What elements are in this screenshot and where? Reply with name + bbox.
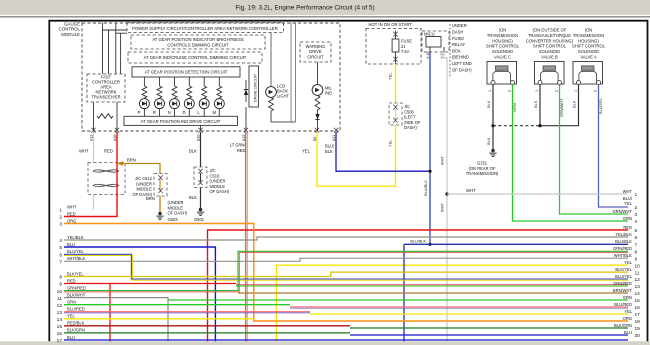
LED N with resistor — [174, 77, 176, 86]
LCD back light lamp — [270, 33, 272, 87]
svg-text:7: 7 — [59, 260, 62, 266]
wire YEL to right row 10 — [276, 265, 628, 341]
svg-text:14: 14 — [57, 317, 63, 323]
power supply circuit box — [127, 23, 284, 33]
svg-text:SOLENOID: SOLENOID — [578, 49, 599, 54]
junction connector J/C C510 — [194, 167, 207, 188]
ground G503 — [158, 212, 162, 216]
svg-text:BLK: BLK — [486, 137, 491, 145]
svg-text:B10: B10 — [196, 135, 200, 141]
svg-text:TRANSMISSION: TRANSMISSION — [487, 33, 518, 38]
svg-text:HOT IN ON OR START: HOT IN ON OR START — [369, 22, 413, 27]
connector pin A13 — [91, 128, 95, 130]
svg-text:IND: IND — [325, 91, 332, 96]
wire BLU/YEL left row 6 to right row 12 — [64, 256, 628, 281]
svg-text:WARNING: WARNING — [306, 44, 326, 49]
svg-text:YEL: YEL — [624, 201, 632, 206]
svg-text:BLU: BLU — [67, 242, 75, 247]
drive circuit box — [249, 66, 259, 107]
svg-text:G501: G501 — [194, 217, 205, 222]
svg-text:BLK: BLK — [533, 100, 538, 108]
wire BLU/BLK branch down — [403, 244, 405, 341]
svg-text:(BEHIND: (BEHIND — [452, 55, 469, 60]
svg-text:8: 8 — [59, 275, 62, 281]
svg-text:(ON: (ON — [585, 28, 593, 33]
svg-text:16: 16 — [57, 331, 63, 337]
wire BLK to G151 — [492, 126, 494, 149]
wire BLU/RED right row 16 — [290, 306, 628, 308]
svg-text:3: 3 — [59, 222, 62, 228]
wire GRN valve C pin 2 to right row 4 — [513, 85, 629, 222]
wire YEL left row 14 — [64, 318, 254, 320]
svg-text:5: 5 — [635, 228, 638, 234]
brightness control dimming circuit box — [131, 35, 265, 49]
svg-text:SHIFT CONTROL: SHIFT CONTROL — [533, 44, 567, 49]
svg-text:WHT: WHT — [466, 188, 476, 193]
dashed link between ground nodes — [493, 125, 540, 127]
wire BLK/WHT left row 11 down — [64, 298, 168, 342]
svg-text:AT GEAR IND/CRUISE CONTROL DIM: AT GEAR IND/CRUISE CONTROL DIMMING CIRCU… — [144, 55, 247, 60]
svg-text:BLK: BLK — [189, 195, 197, 200]
LED P with resistor — [143, 77, 145, 86]
LED R with resistor — [159, 77, 161, 86]
svg-text:1: 1 — [574, 90, 578, 92]
svg-text:(UNDER: (UNDER — [210, 179, 226, 184]
svg-text:BLK: BLK — [571, 100, 576, 108]
svg-text:GRN/RED: GRN/RED — [613, 281, 632, 286]
solenoid valve B — [535, 62, 565, 85]
svg-text:DRIVE: DRIVE — [309, 49, 322, 54]
wire BLK valve B pin 1 — [539, 85, 541, 126]
svg-text:3: 3 — [635, 212, 638, 218]
wire BLU/BLK from MICU to node — [429, 52, 431, 244]
wire YEL right row 17 — [310, 313, 628, 315]
svg-text:A11: A11 — [332, 135, 336, 141]
gauge control module outline — [82, 23, 340, 131]
connector pin B10 — [198, 128, 202, 130]
svg-text:12: 12 — [57, 303, 63, 309]
svg-text:C506: C506 — [404, 109, 415, 114]
svg-text:MODULE: MODULE — [61, 32, 80, 37]
svg-text:11: 11 — [635, 270, 640, 276]
wire ORG left row 3 to right row 18 — [64, 224, 628, 322]
svg-text:9: 9 — [635, 256, 638, 262]
node BLU/BLK junction row 7 — [428, 243, 431, 246]
svg-text:VALVE B: VALVE B — [541, 55, 558, 60]
svg-text:15: 15 — [57, 324, 63, 330]
termination resistor — [97, 114, 113, 118]
svg-text:BLK/WHT: BLK/WHT — [67, 292, 86, 297]
ground G151 — [491, 149, 495, 153]
connector pin B5 — [315, 128, 319, 130]
svg-text:BLU/BLK: BLU/BLK — [615, 239, 632, 244]
svg-text:BLK/YEL: BLK/YEL — [67, 271, 84, 276]
svg-text:OF DASH): OF DASH) — [452, 67, 472, 72]
svg-text:LIGHT: LIGHT — [277, 94, 290, 99]
svg-text:GRN/RED: GRN/RED — [613, 246, 632, 251]
svg-text:CIRCUIT: CIRCUIT — [307, 55, 324, 60]
svg-text:VALVE A: VALVE A — [580, 55, 597, 60]
svg-text:YEL: YEL — [67, 314, 75, 319]
wire BLK to ground — [200, 188, 202, 209]
svg-text:Fig. 19: 3.2L, Engine Performa: Fig. 19: 3.2L, Engine Performance Circui… — [235, 4, 374, 11]
wire GRN/RED left row 10 to right row 8 — [64, 251, 628, 290]
junction connector J/C C512 — [154, 174, 167, 197]
svg-text:19: 19 — [635, 326, 641, 332]
svg-text:FUSE: FUSE — [401, 39, 412, 44]
svg-text:2: 2 — [555, 90, 559, 92]
svg-text:WHT/BLK: WHT/BLK — [67, 256, 85, 261]
svg-text:OF DASH): OF DASH) — [168, 211, 188, 216]
svg-text:GRN/WHT: GRN/WHT — [612, 209, 632, 214]
svg-text:HOUSING): HOUSING) — [492, 38, 513, 43]
svg-text:# 16: # 16 — [426, 52, 430, 59]
wire BLK/GRN right row 19 — [350, 327, 628, 329]
svg-text:POWER SUPPLY CIRCUIT/CONTROLLE: POWER SUPPLY CIRCUIT/CONTROLLER AREA NET… — [132, 26, 278, 31]
svg-text:17: 17 — [57, 338, 63, 344]
svg-text:DRIVE CIRCUIT: DRIVE CIRCUIT — [254, 73, 258, 102]
svg-text:C510: C510 — [210, 173, 221, 178]
svg-text:(UNDER: (UNDER — [136, 181, 152, 186]
svg-text:AT GEAR POSITION IND DRIVE CIR: AT GEAR POSITION IND DRIVE CIRCUIT — [141, 119, 221, 124]
svg-text:RED: RED — [104, 149, 113, 154]
svg-text:YEL/BLK: YEL/BLK — [615, 232, 632, 237]
node WHT junction row 1 — [445, 192, 448, 195]
svg-text:16: 16 — [635, 305, 641, 311]
svg-text:BRN: BRN — [146, 196, 155, 201]
svg-text:BLU/YEL: BLU/YEL — [598, 97, 603, 114]
wire BLU/BLK from pin A11 — [336, 132, 430, 171]
wires below transceiver — [93, 102, 95, 131]
svg-text:BRN/WHT: BRN/WHT — [613, 288, 633, 293]
wire BLK stub inside module — [200, 125, 202, 131]
wire BRN/WHT right row 14 — [238, 292, 628, 294]
svg-text:G503: G503 — [168, 217, 179, 222]
svg-text:15: 15 — [635, 298, 641, 304]
svg-text:17: 17 — [635, 312, 641, 318]
svg-text:BLK/YEL: BLK/YEL — [615, 267, 632, 272]
svg-text:WHT: WHT — [623, 189, 633, 194]
svg-text:N: N — [168, 110, 171, 115]
wire WHT from pin A13 — [93, 132, 95, 163]
gear position detection circuit box — [132, 67, 240, 77]
wire BLU right row 20 — [350, 334, 628, 336]
wire LT GRN/RED stub inside module — [245, 107, 247, 131]
wire WHT/BLK left row 7 to right row 9 — [64, 258, 628, 261]
svg-text:13: 13 — [57, 310, 63, 316]
fuse 21 7.5A — [393, 32, 397, 34]
wire RED from pin A16 down to left row 2 — [64, 132, 117, 217]
connector pin A16 — [115, 128, 119, 130]
svg-text:R: R — [153, 110, 156, 115]
wire BLU/RED left row 13 to right row 17 — [64, 311, 310, 313]
wire BLU/BLK right row 7 — [404, 243, 628, 245]
under-dash fuse relay box label — [449, 24, 451, 78]
svg-text:GRN: GRN — [623, 295, 632, 300]
wire GRN right row 15 — [168, 299, 628, 301]
svg-text:BLU/YEL: BLU/YEL — [615, 274, 633, 279]
MIL resistor — [315, 96, 320, 111]
svg-text:SHIFT CONTROL: SHIFT CONTROL — [486, 44, 520, 49]
svg-text:YEL/BLK: YEL/BLK — [67, 235, 84, 240]
wire bus to CAN transceiver — [103, 29, 128, 31]
svg-text:SHIFT CONTROL: SHIFT CONTROL — [572, 44, 606, 49]
svg-text:20: 20 — [635, 333, 641, 339]
svg-text:YEL: YEL — [302, 149, 311, 154]
cruise control dimming circuit box — [128, 52, 262, 63]
svg-text:BLU/: BLU/ — [325, 144, 335, 149]
svg-text:ORG: ORG — [623, 316, 632, 321]
svg-text:RED: RED — [67, 278, 76, 283]
svg-text:RED: RED — [237, 148, 246, 153]
svg-text:WHT/BLK: WHT/BLK — [614, 253, 632, 258]
svg-text:9: 9 — [59, 282, 62, 288]
LED L with resistor — [203, 77, 205, 86]
svg-text:BLU/BLK: BLU/BLK — [423, 180, 428, 196]
svg-text:BLU: BLU — [624, 330, 632, 335]
svg-text:SIDE OF: SIDE OF — [404, 120, 421, 125]
wire GRN left row 12 to right row 16 — [64, 304, 290, 306]
MIL indicator lamp — [317, 62, 319, 85]
solenoid valve A — [573, 62, 603, 85]
svg-text:(LEFT: (LEFT — [404, 115, 416, 120]
svg-text:LT GRN/: LT GRN/ — [230, 143, 247, 148]
svg-text:MICU: MICU — [424, 32, 435, 37]
junction connector J/C C506 — [389, 103, 402, 125]
svg-text:2: 2 — [635, 205, 638, 211]
lamp bus wires — [271, 121, 296, 123]
fast controller area network transceiver box — [87, 74, 125, 102]
svg-text:YEL: YEL — [388, 139, 393, 147]
svg-text:WHT: WHT — [440, 156, 445, 165]
svg-text:BLK/GRN: BLK/GRN — [614, 323, 632, 328]
svg-text:# 2: # 2 — [440, 54, 444, 59]
svg-text:J/C: J/C — [210, 168, 216, 173]
wire BLU left row 5 down — [64, 247, 215, 341]
svg-text:BLU/: BLU/ — [623, 196, 633, 201]
svg-text:4: 4 — [635, 219, 638, 225]
svg-text:(ON OUTSIDE OF: (ON OUTSIDE OF — [533, 28, 567, 33]
diode D1 — [245, 80, 247, 102]
svg-text:AT GEAR POSITION DETECTION CIR: AT GEAR POSITION DETECTION CIRCUIT — [145, 70, 228, 75]
svg-text:MIDDLE: MIDDLE — [137, 187, 153, 192]
svg-text:12: 12 — [635, 277, 641, 283]
svg-text:13: 13 — [635, 284, 641, 290]
svg-text:BOX: BOX — [452, 48, 461, 53]
svg-text:J/C: J/C — [404, 104, 410, 109]
wire BLK/GRN left row 16 — [64, 332, 350, 334]
svg-text:21: 21 — [401, 44, 406, 49]
svg-text:2: 2 — [508, 90, 512, 92]
svg-text:B5: B5 — [313, 137, 317, 141]
svg-text:1: 1 — [59, 208, 62, 214]
wire BLU/YEL valve A pin 2 to right row 2 — [599, 85, 629, 208]
svg-text:GRN: GRN — [623, 216, 632, 221]
hot in on or start fuse box — [366, 29, 421, 65]
MICU box — [422, 31, 449, 52]
wire GRN/RED right row 13 — [236, 285, 628, 287]
svg-text:RELAY: RELAY — [452, 42, 465, 47]
svg-text:RED/BLK: RED/BLK — [67, 321, 85, 326]
svg-text:GRN: GRN — [67, 300, 76, 305]
svg-text:DASH: DASH — [452, 30, 463, 35]
svg-text:WHT: WHT — [440, 203, 445, 212]
node ground junction B — [538, 124, 541, 127]
connector pin A15 — [244, 128, 248, 130]
svg-text:MIDDLE: MIDDLE — [168, 205, 184, 210]
svg-text:ORG: ORG — [67, 218, 76, 223]
wire YEL fuse to junction C506 — [395, 64, 397, 103]
twisted pair shield box — [88, 163, 125, 195]
svg-text:BLU/RED: BLU/RED — [67, 307, 85, 312]
LED D with resistor — [188, 77, 190, 86]
svg-text:BLK/GRN: BLK/GRN — [67, 328, 85, 333]
node ground junction C — [491, 124, 494, 127]
svg-text:14: 14 — [635, 291, 641, 297]
ground G501 — [199, 208, 203, 212]
svg-text:2: 2 — [594, 90, 598, 92]
wire YEL from pin B5 to junction — [317, 125, 396, 186]
svg-text:TRANSMISSION): TRANSMISSION) — [466, 171, 499, 176]
svg-text:8: 8 — [635, 250, 638, 256]
node BLU/BLK junction with module wire — [428, 170, 431, 173]
LED M with resistor — [218, 77, 220, 86]
svg-text:DASH): DASH) — [404, 125, 417, 130]
svg-text:GRN/WHT: GRN/WHT — [559, 98, 564, 117]
svg-text:BLK: BLK — [486, 100, 491, 108]
svg-text:SOLENOID: SOLENOID — [492, 49, 513, 54]
svg-text:6: 6 — [635, 235, 638, 241]
svg-text:7.5A: 7.5A — [401, 49, 410, 54]
svg-text:BLK: BLK — [189, 149, 197, 154]
svg-text:CONVERTER HOUSING): CONVERTER HOUSING) — [526, 38, 574, 43]
svg-text:11: 11 — [57, 296, 62, 302]
svg-text:18: 18 — [635, 319, 641, 325]
svg-text:GRN/RED: GRN/RED — [67, 285, 86, 290]
svg-text:TRANSAXLE/TORQUE: TRANSAXLE/TORQUE — [528, 33, 571, 38]
wire RED branch down — [109, 284, 111, 342]
wire BRN to ground — [159, 196, 161, 213]
svg-text:(ON REAR OF: (ON REAR OF — [469, 166, 496, 171]
svg-text:1: 1 — [635, 192, 638, 198]
svg-text:A16: A16 — [113, 135, 117, 141]
svg-text:BLU: BLU — [67, 335, 75, 340]
svg-text:TRANSCEIVER: TRANSCEIVER — [91, 95, 120, 100]
svg-text:FUSE/: FUSE/ — [452, 36, 465, 41]
svg-text:BLU/YEL: BLU/YEL — [67, 249, 85, 254]
svg-text:UNDER-: UNDER- — [452, 23, 469, 28]
svg-text:YEL: YEL — [624, 260, 632, 265]
svg-text:A13: A13 — [89, 135, 93, 141]
svg-text:4: 4 — [59, 238, 62, 244]
LCD resistor — [269, 98, 274, 112]
svg-text:(ON: (ON — [499, 28, 507, 33]
svg-text:VALVE C: VALVE C — [494, 55, 511, 60]
wire BRN jumper — [117, 164, 160, 174]
svg-text:1: 1 — [488, 90, 492, 92]
svg-text:YEL: YEL — [388, 72, 393, 80]
MIL diode — [317, 110, 319, 131]
svg-text:AT GEAR POSITION INDICATOR BRI: AT GEAR POSITION INDICATOR BRIGHTNESS — [152, 37, 244, 42]
warning drive circuit box — [300, 42, 331, 62]
svg-text:7: 7 — [635, 243, 638, 249]
gear position ind drive circuit box — [124, 116, 238, 125]
svg-text:MIDDLE: MIDDLE — [210, 184, 226, 189]
svg-text:TRANSMISSION: TRANSMISSION — [573, 33, 604, 38]
svg-text:D: D — [183, 110, 186, 115]
svg-text:2: 2 — [59, 215, 62, 221]
wire BLK valve C pin 1 — [492, 85, 494, 126]
wire WHT right row 1 — [447, 193, 628, 195]
svg-text:RED: RED — [67, 211, 76, 216]
svg-text:10: 10 — [635, 263, 641, 269]
svg-text:BRN: BRN — [127, 158, 136, 163]
wire RED main feed to right row 5 — [208, 230, 629, 341]
svg-text:G151: G151 — [477, 161, 488, 166]
svg-text:HOUSING): HOUSING) — [578, 38, 599, 43]
svg-text:J/C C512: J/C C512 — [135, 176, 153, 181]
svg-text:WHT: WHT — [67, 204, 77, 209]
wire RED/BLK left row 15 — [64, 325, 350, 327]
svg-text:RED: RED — [623, 225, 632, 230]
svg-text:LEFT END: LEFT END — [452, 61, 472, 66]
wire BLK/YEL left row 8 to right row 11 — [64, 272, 628, 276]
svg-text:(UNDER: (UNDER — [168, 200, 184, 205]
svg-text:10: 10 — [57, 289, 63, 295]
wire WHT from MICU — [444, 52, 447, 341]
wire RED left row 9 to right row 13 — [64, 283, 236, 285]
svg-text:GRN: GRN — [512, 103, 517, 112]
svg-text:M: M — [213, 110, 217, 115]
svg-text:CONTROLS DIMMING CIRCUIT: CONTROLS DIMMING CIRCUIT — [167, 43, 229, 48]
svg-text:YEL: YEL — [624, 309, 632, 314]
svg-text:5: 5 — [59, 245, 62, 251]
wire BLU left row 17 — [64, 339, 628, 341]
solenoid valve C — [487, 62, 517, 85]
svg-text:BLK: BLK — [325, 149, 333, 154]
wire BLK from pin B10 — [200, 132, 202, 167]
svg-text:P: P — [138, 110, 141, 115]
wire BLK valve A pin 1 — [540, 85, 579, 126]
wire YEL/BLK left row 4 to right row 6 — [64, 237, 628, 240]
wire LT GRN/RED from pin A15 — [245, 132, 247, 341]
svg-text:6: 6 — [59, 253, 62, 259]
svg-text:BLU/RED: BLU/RED — [614, 302, 632, 307]
connector pin A11 — [334, 128, 338, 130]
svg-text:WHT: WHT — [79, 149, 89, 154]
svg-text:BLU/BLK: BLU/BLK — [410, 240, 426, 244]
svg-text:1: 1 — [535, 90, 539, 92]
svg-text:OF DASH): OF DASH) — [210, 189, 230, 194]
relay driver in MICU — [426, 37, 441, 48]
wire GRN/WHT valve B pin 2 to right row 3 — [560, 85, 629, 215]
svg-text:SOLENOID: SOLENOID — [539, 49, 560, 54]
